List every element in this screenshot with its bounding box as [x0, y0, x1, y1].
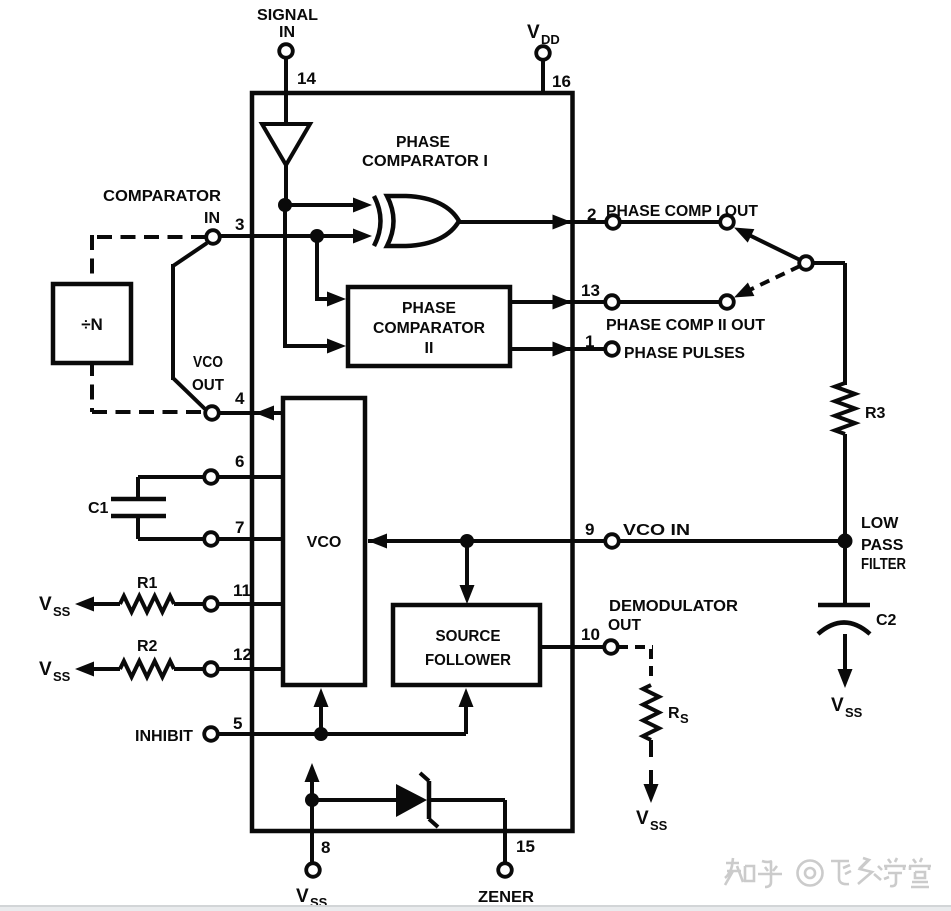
svg-text:DEMODULATOR: DEMODULATOR — [609, 598, 738, 615]
svg-text:DD: DD — [541, 32, 560, 47]
svg-text:4: 4 — [235, 389, 245, 408]
svg-text:V: V — [527, 22, 540, 43]
svg-text:7: 7 — [235, 518, 244, 537]
svg-text:S: S — [680, 711, 689, 726]
svg-text:FILTER: FILTER — [861, 556, 906, 573]
svg-text:PHASE COMP I OUT: PHASE COMP I OUT — [606, 203, 758, 220]
svg-text:13: 13 — [581, 281, 600, 300]
svg-text:R2: R2 — [137, 638, 158, 655]
svg-text:PASS: PASS — [861, 537, 904, 554]
svg-text:÷N: ÷N — [81, 315, 103, 334]
svg-text:ZENER: ZENER — [478, 889, 534, 906]
svg-text:PHASE: PHASE — [396, 134, 450, 151]
svg-text:PHASE COMP II OUT: PHASE COMP II OUT — [606, 317, 765, 334]
svg-text:SOURCE: SOURCE — [436, 628, 501, 645]
svg-text:3: 3 — [235, 215, 244, 234]
svg-text:6: 6 — [235, 452, 244, 471]
svg-text:OUT: OUT — [192, 377, 224, 394]
svg-text:SS: SS — [845, 705, 863, 720]
svg-text:SS: SS — [53, 669, 71, 684]
svg-text:5: 5 — [233, 714, 242, 733]
svg-text:PHASE: PHASE — [402, 300, 456, 317]
svg-text:C2: C2 — [876, 612, 897, 629]
svg-text:VCO: VCO — [193, 354, 223, 371]
svg-text:2: 2 — [587, 205, 596, 224]
svg-text:R: R — [668, 705, 680, 722]
svg-text:IN: IN — [204, 210, 220, 227]
svg-text:LOW: LOW — [861, 515, 899, 532]
svg-text:R3: R3 — [865, 405, 886, 422]
svg-text:1: 1 — [585, 332, 594, 351]
svg-text:VCO IN: VCO IN — [623, 522, 690, 539]
svg-text:V: V — [296, 886, 309, 907]
svg-text:INHIBIT: INHIBIT — [135, 728, 193, 745]
svg-text:COMPARATOR I: COMPARATOR I — [362, 153, 488, 170]
svg-text:PHASE PULSES: PHASE PULSES — [624, 345, 745, 362]
svg-text:COMPARATOR: COMPARATOR — [373, 320, 485, 337]
svg-text:FOLLOWER: FOLLOWER — [425, 652, 511, 669]
svg-text:16: 16 — [552, 72, 571, 91]
svg-text:14: 14 — [297, 69, 316, 88]
svg-text:COMPARATOR: COMPARATOR — [103, 188, 221, 205]
svg-text:II: II — [425, 340, 434, 357]
svg-text:IN: IN — [279, 24, 295, 41]
svg-text:8: 8 — [321, 838, 330, 857]
svg-text:V: V — [831, 695, 844, 716]
svg-text:SIGNAL: SIGNAL — [257, 7, 318, 24]
svg-text:V: V — [636, 808, 649, 829]
svg-text:10: 10 — [581, 625, 600, 644]
svg-text:12: 12 — [233, 645, 252, 664]
svg-text:SS: SS — [53, 604, 71, 619]
svg-text:C1: C1 — [88, 500, 109, 517]
svg-text:V: V — [39, 594, 52, 615]
svg-text:VCO: VCO — [307, 534, 342, 551]
svg-text:SS: SS — [650, 818, 668, 833]
svg-text:9: 9 — [585, 520, 594, 539]
svg-text:15: 15 — [516, 837, 535, 856]
svg-text:R1: R1 — [137, 575, 158, 592]
svg-text:11: 11 — [233, 581, 251, 600]
svg-text:V: V — [39, 659, 52, 680]
svg-text:OUT: OUT — [608, 617, 641, 634]
